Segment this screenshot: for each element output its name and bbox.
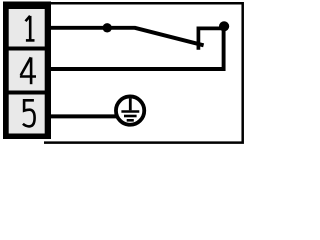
pin 4 label: [20, 57, 36, 84]
wire node B to pin 4: [46, 27, 224, 69]
pin 1 label: [26, 16, 35, 41]
junction dot B: [219, 21, 229, 31]
protective earth symbol: [116, 96, 144, 124]
connector terminal block: [3, 2, 51, 140]
wire pin 1 to switch pivot: [46, 26, 107, 30]
pin 5 label: [23, 100, 35, 126]
switch S lever: [107, 28, 203, 46]
wire pin 5 to earth: [46, 114, 117, 118]
junction dot A: [103, 23, 112, 32]
switch fixed contact and wire to node B: [198, 28, 223, 49]
